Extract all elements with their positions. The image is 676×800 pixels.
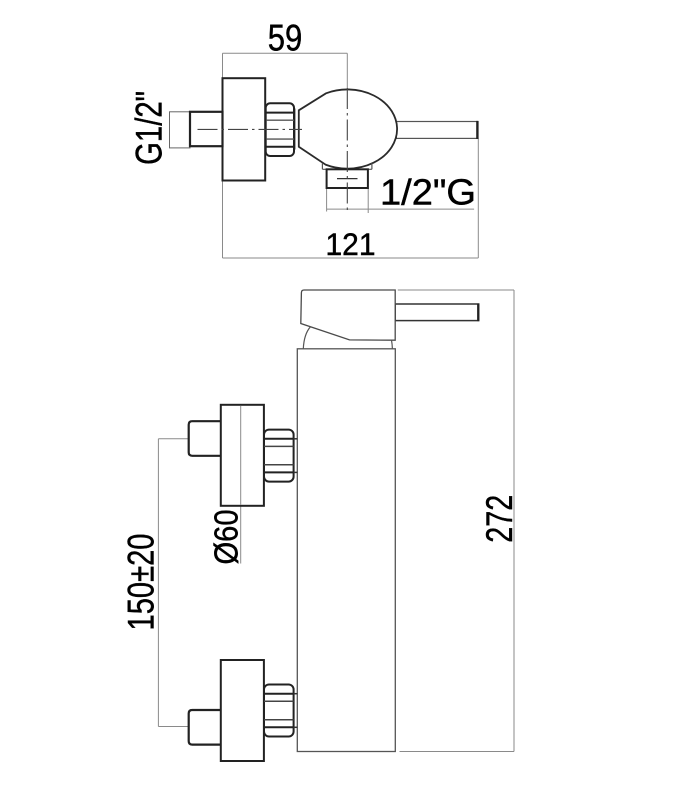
svg-text:272: 272 (479, 495, 520, 543)
svg-text:Ø60: Ø60 (208, 510, 245, 565)
svg-text:1/2"G: 1/2"G (380, 172, 476, 213)
svg-text:121: 121 (326, 226, 376, 262)
svg-text:G1/2": G1/2" (129, 91, 170, 165)
svg-text:150±20: 150±20 (121, 534, 162, 631)
svg-text:59: 59 (268, 17, 303, 59)
